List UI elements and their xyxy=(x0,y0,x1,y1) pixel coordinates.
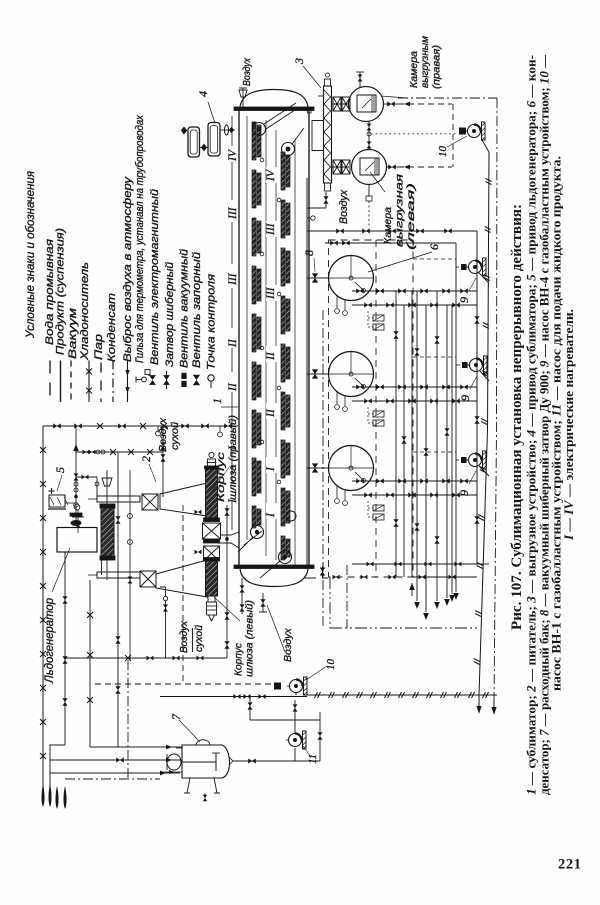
svg-text:Воздух: Воздух xyxy=(178,620,190,653)
upper sluice outlet xyxy=(218,532,240,548)
svg-text:III: III xyxy=(227,206,239,220)
svg-text:Вентиль вакуумный: Вентиль вакуумный xyxy=(179,249,191,368)
leader label 8 xyxy=(314,258,315,272)
vacuum boundary dashed box xyxy=(329,240,414,577)
trunk px118 xyxy=(117,452,119,747)
ice generator leader xyxy=(52,548,70,592)
svg-text:II: II xyxy=(227,338,239,348)
svg-text:7: 7 xyxy=(169,713,183,720)
left trunk px43 xyxy=(42,426,44,800)
svg-text:1: 1 xyxy=(210,398,224,404)
condenser 6-3 drain wells xyxy=(336,486,338,498)
tray guide line C xyxy=(275,130,277,560)
arrow end px417 xyxy=(414,602,420,609)
feed column px76 xyxy=(75,426,77,524)
suction valve pump 9-3 xyxy=(461,457,467,463)
svg-text:Корпус: Корпус xyxy=(215,451,227,502)
leader sluice left xyxy=(214,597,240,621)
svg-text:Конденсат: Конденсат xyxy=(106,293,118,362)
lattice valve ticks xyxy=(393,331,398,339)
trunk px65 lower xyxy=(64,552,66,745)
belt pulley top-right xyxy=(282,143,295,156)
legend sample: vacvalve xyxy=(181,373,186,379)
svg-text:Выброс воздуха в атмосферу: Выброс воздуха в атмосферу xyxy=(122,175,134,362)
leader pump 11 xyxy=(303,746,311,757)
section label II inner xyxy=(266,346,277,362)
collector row py577 xyxy=(408,576,477,578)
suction valve pump 9-2 xyxy=(462,362,468,368)
feeder inlet stem xyxy=(106,470,108,505)
drive 5 details xyxy=(74,504,80,510)
condenser 6-1 inlet valve 8-style xyxy=(312,273,318,282)
svg-text:сухой: сухой xyxy=(193,625,205,652)
manifold line px426 xyxy=(425,305,427,612)
dashed link to pump 9-1 xyxy=(413,258,456,260)
vacuum pump 10 (top) xyxy=(468,125,481,138)
sublimator shell left wall xyxy=(238,110,240,566)
header valves xyxy=(53,423,61,428)
sublimator top flange xyxy=(234,107,314,111)
svg-text:II: II xyxy=(265,408,277,418)
svg-text:Камера: Камера xyxy=(382,207,394,244)
leader sluice right xyxy=(211,466,230,492)
sluice flange disks xyxy=(204,518,220,522)
svg-text:Вакуум: Вакуум xyxy=(67,307,79,359)
condenser 6-2 shell xyxy=(329,352,374,397)
manifold line px396 xyxy=(395,291,397,577)
legend sample: point xyxy=(208,375,214,381)
atmosphere arrows down xyxy=(476,706,481,714)
discharge pump 9-2 xyxy=(480,371,489,381)
bottom supply teardrops xyxy=(55,786,58,809)
chamber 1 inner box xyxy=(357,95,376,112)
section label III inner xyxy=(266,285,277,301)
flange set to chamber 2 xyxy=(331,166,349,168)
svg-text:Пар: Пар xyxy=(93,334,105,360)
svg-text:4: 4 xyxy=(196,91,210,97)
suction valve pump 9-1 xyxy=(461,264,467,270)
instrument drops px130 xyxy=(129,470,131,660)
manifold line px404 xyxy=(403,305,405,577)
svg-text:Рис. 107. Сублимационная устан: Рис. 107. Сублимационная установка непре… xyxy=(509,204,525,630)
lower sluice flange disk xyxy=(204,558,220,562)
sublimator bottom dome xyxy=(240,569,308,587)
ice generator body xyxy=(57,528,97,553)
svg-text:Воздух: Воздух xyxy=(282,628,294,662)
right belt trays (hatched) xyxy=(281,152,285,190)
chamber 2 vacuum dash line xyxy=(398,166,452,168)
condensate drop xyxy=(329,577,331,628)
upper chute funnel xyxy=(160,483,207,516)
discharge chamber left (circle) xyxy=(352,150,387,185)
arrow end px456 xyxy=(453,593,459,600)
drain px227 from upper sluice xyxy=(226,505,228,658)
svg-text:5: 5 xyxy=(53,467,67,473)
svg-text:6: 6 xyxy=(427,244,441,250)
trunk px65 jog and end xyxy=(50,745,65,800)
leader pump 9-2 xyxy=(470,376,477,389)
product pump 11 xyxy=(289,734,302,747)
arrow end px437 xyxy=(434,602,440,609)
leader for label 3 xyxy=(303,66,321,88)
condenser 6-3 inlet valve 8-style xyxy=(312,463,318,472)
condenser 6-3 manifold row a xyxy=(352,480,477,482)
svg-text:III: III xyxy=(265,286,277,300)
chamber 1 vacuum dash line xyxy=(398,103,452,105)
condenser 6-1 manifold row a xyxy=(352,290,477,292)
pump 11 riser xyxy=(319,712,321,761)
legend sample: dashdot xyxy=(112,361,114,403)
wash row py452 xyxy=(76,451,163,453)
svg-text:II: II xyxy=(265,351,277,361)
belt pulley top-left xyxy=(253,123,266,136)
leader pump 9-1 xyxy=(469,278,476,291)
svg-text:Льдогенератор: Льдогенератор xyxy=(44,597,56,684)
leader label 4 xyxy=(208,102,215,123)
chamber 2 outlet valve xyxy=(387,166,399,168)
svg-text:2: 2 xyxy=(139,456,153,462)
leader label 5 xyxy=(57,475,62,491)
condensate line dash-dot-dot xyxy=(330,627,477,629)
tank 7 body xyxy=(182,745,230,778)
leader label 2 xyxy=(149,464,156,482)
conveyor bottom cap xyxy=(325,183,331,191)
condenser 6-2 drain wells xyxy=(336,392,338,404)
belt return diagonals top xyxy=(264,103,304,144)
sublimator top dome xyxy=(240,90,308,108)
cross line py658 xyxy=(64,657,227,659)
upper sluice X-flange xyxy=(203,523,221,539)
leader label 6 xyxy=(368,252,432,272)
feeder bottom flange xyxy=(100,556,115,560)
vacuum pump 10 (bottom) xyxy=(290,680,303,693)
condenser 6-1 internals xyxy=(349,276,353,280)
tank 7 inlet stubs xyxy=(176,747,182,749)
inner dashed partition xyxy=(375,240,377,577)
tray rollers xyxy=(260,158,264,162)
brine dash-dot py779 xyxy=(65,778,160,780)
sublimator bottom flange xyxy=(234,565,314,569)
vacuum dash riser to pump 10 xyxy=(452,104,454,167)
legend sample: dash8 xyxy=(100,363,102,403)
svg-text:Воздух: Воздух xyxy=(338,190,350,224)
condenser 6-1 heaters xyxy=(373,315,384,321)
tank 7 top hatch xyxy=(196,740,210,745)
lower transfer bar xyxy=(97,572,140,578)
discharge pump 9-1 xyxy=(479,273,489,283)
feeder bottom stem xyxy=(106,560,108,580)
section label II inner xyxy=(266,403,277,419)
sublimator shell right wall xyxy=(308,110,310,566)
ice-water line py773 xyxy=(50,772,180,774)
svg-text:Продукт (суспензия): Продукт (суспензия) xyxy=(55,228,67,355)
drive unit 4 shaft and knob xyxy=(220,129,235,131)
svg-text:(правая): (правая) xyxy=(431,45,443,89)
condenser 6-2 heaters xyxy=(373,411,384,417)
manifold line px452 xyxy=(451,305,453,594)
screw conveyor screw xyxy=(324,90,331,181)
chamber 1 outlet valve xyxy=(384,103,399,105)
svg-text:221: 221 xyxy=(558,857,582,873)
svg-text:11: 11 xyxy=(307,754,319,764)
leader chamber left label xyxy=(370,172,385,192)
air stub on top dome xyxy=(242,88,244,107)
feeder top flange xyxy=(100,504,115,508)
inlet block pump 10 bottom xyxy=(274,683,281,690)
feed drop px163 xyxy=(162,426,164,497)
manifold line px447 xyxy=(446,305,448,598)
discharge chamber right (circle) xyxy=(349,87,384,122)
top manifold row xyxy=(307,230,477,232)
feeder barrel (hatched) xyxy=(101,508,114,556)
leader pump 10 bottom xyxy=(306,666,327,680)
collector valves xyxy=(474,316,479,324)
svg-text:IV: IV xyxy=(227,148,239,162)
tank 7 legs xyxy=(187,778,190,793)
svg-text:Гильза для термометра, устанав: Гильза для термометра, устанавл на трубо… xyxy=(134,115,146,363)
lower X-flange xyxy=(140,571,156,587)
svg-text:3: 3 xyxy=(292,58,306,65)
vacuum pump 9-2 xyxy=(470,359,483,372)
svg-text:9: 9 xyxy=(458,395,472,401)
drive unit 4 diamonds xyxy=(181,127,187,135)
svg-text:9: 9 xyxy=(457,490,471,496)
dashed link to pump 9-3 xyxy=(413,451,456,453)
upper sluice top cap xyxy=(209,452,214,457)
svg-text:III: III xyxy=(227,272,239,286)
condenser 6-2 inlet valve 8-style xyxy=(312,369,318,378)
collector row py564 xyxy=(352,563,477,565)
leader to bottom air stub xyxy=(267,605,285,652)
condenser 6-2 manifold row a xyxy=(352,386,477,388)
legend sample: xline xyxy=(88,361,90,403)
svg-text:III: III xyxy=(265,222,277,236)
leader for label 1 xyxy=(221,406,238,408)
vacuum pump 9-3 xyxy=(469,454,482,467)
lower chute funnel xyxy=(156,560,207,597)
legend sample: gate xyxy=(163,375,170,385)
svg-text:8: 8 xyxy=(302,250,316,256)
chamber 2 bottom stub xyxy=(368,185,370,197)
stub px242 at vessel dome xyxy=(241,578,243,614)
wash water header py426 xyxy=(43,425,238,427)
upper transfer bar xyxy=(97,496,140,502)
condenser 6-2 internals xyxy=(349,372,353,376)
ice generator drive 5 xyxy=(49,495,65,507)
tank drain stub xyxy=(204,793,206,801)
manifold line px437 xyxy=(436,291,438,601)
svg-text:10: 10 xyxy=(325,659,337,671)
svg-text:выгрузным: выгрузным xyxy=(419,36,431,88)
belt pulley bottom-left xyxy=(251,526,264,539)
arrow end px426 xyxy=(423,613,429,620)
legend sample: well xyxy=(142,377,147,382)
lower sluice bottom tip xyxy=(208,596,215,602)
condenser 6-1 manifold row b xyxy=(352,304,477,306)
condenser 6-3 heaters xyxy=(373,505,384,511)
svg-text:Точка контроля: Точка контроля xyxy=(206,274,218,370)
discharge drop tick marks xyxy=(485,179,491,185)
svg-text:IV: IV xyxy=(265,168,277,182)
svg-text:II: II xyxy=(227,382,239,392)
top manifold valves xyxy=(336,228,344,233)
drive unit 4 capsule left xyxy=(188,127,200,157)
pump 10 discharge drop xyxy=(482,140,489,152)
upper X-flange xyxy=(142,494,158,510)
right collector px477 xyxy=(476,231,478,564)
chamber 2 inner box xyxy=(360,158,379,175)
condenser 6-3 internals xyxy=(349,466,353,470)
legend sample: solid xyxy=(60,361,62,403)
svg-text:Воздух: Воздух xyxy=(157,417,169,452)
left trunk x marks xyxy=(40,447,46,453)
vacuum dashed suction (bottom) xyxy=(95,683,274,685)
atmosphere discharge header xyxy=(160,696,307,698)
condenser feed riser xyxy=(306,178,308,565)
tank 7 agitator motor xyxy=(167,754,181,770)
svg-text:выгрузная: выгрузная xyxy=(394,173,406,247)
tray guide line D xyxy=(294,140,296,566)
atmosphere header ticks xyxy=(315,692,321,698)
svg-text:9: 9 xyxy=(457,297,471,303)
legend sample: dash12 xyxy=(49,361,51,403)
condenser 6-3 manifold row b xyxy=(352,494,477,496)
conveyor top cap xyxy=(325,79,331,86)
condenser 6-3 shell xyxy=(329,446,374,491)
conveyor bracket to vessel xyxy=(318,95,324,97)
section label III inner xyxy=(266,221,277,237)
condenser 6-2 manifold row b xyxy=(352,400,477,402)
manifold line px412 xyxy=(411,291,413,577)
tray guide line B xyxy=(265,120,267,556)
feed branch below flange xyxy=(322,566,324,578)
svg-text:Хладоноситель: Хладоноситель xyxy=(79,262,91,361)
belt pulley bottom-mid xyxy=(286,511,296,521)
thermo wells on header xyxy=(156,431,161,436)
chamber 1 top stub xyxy=(359,72,361,87)
leader chamber right label xyxy=(381,96,407,98)
conveyor bottom line xyxy=(325,192,327,208)
vacuum pump 9-1 xyxy=(469,261,482,274)
manifold line px417 xyxy=(416,291,418,601)
svg-text:шлюза (левый): шлюза (левый) xyxy=(244,600,256,677)
tank 7 outlet line xyxy=(233,760,320,762)
leader label 7 xyxy=(179,720,200,742)
branch py477 xyxy=(76,476,97,478)
atmosphere dash-dot header xyxy=(398,97,497,99)
leader pump 10 label xyxy=(447,136,467,147)
pump 10 bottom discharge xyxy=(295,693,297,696)
legend sample: solenoid xyxy=(149,375,156,385)
flange set to chamber 1 xyxy=(331,103,349,105)
leader pump 9-3 xyxy=(469,471,476,484)
svg-text:Вентиль электромагнитный: Вентиль электромагнитный xyxy=(149,189,161,365)
discharge pump 9-3 xyxy=(479,466,489,476)
svg-text:Затвор шиберный: Затвор шиберный xyxy=(164,262,176,367)
upper sluice barrel xyxy=(206,469,218,518)
section label IV inner xyxy=(266,167,277,183)
lower sluice X-flange xyxy=(204,546,220,561)
inlet valve of pump 10 xyxy=(459,128,466,135)
legend sample: ticks xyxy=(127,361,129,403)
svg-text:Условные знаки и обозначения: Условные знаки и обозначения xyxy=(23,170,37,339)
right dash-dot drop line xyxy=(494,98,497,705)
funnel tip elbow xyxy=(160,587,166,596)
legend sample: stop xyxy=(193,375,200,385)
condenser 6-1 shell xyxy=(329,256,374,301)
condenser 6-1 drain wells xyxy=(336,296,338,308)
pump 11 stem xyxy=(294,700,296,733)
svg-text:шлюза (правый): шлюза (правый) xyxy=(227,415,239,500)
section dimension strip xyxy=(231,116,233,146)
lower sluice barrel xyxy=(206,561,218,596)
trunk px90 xyxy=(89,580,91,747)
feed line py760 to tank xyxy=(50,759,182,761)
drive unit 4 capsule right xyxy=(208,123,220,157)
svg-text:Воздух: Воздух xyxy=(241,57,253,86)
dashed link to pump 9-2 xyxy=(413,356,456,358)
air stub bottom dome xyxy=(262,593,264,612)
manifold line px456 xyxy=(455,243,457,564)
left belt trays (hatched) xyxy=(252,122,256,160)
arrow end px452 xyxy=(449,595,455,602)
tray guide line A xyxy=(246,116,248,540)
screw conveyor housing xyxy=(324,86,332,183)
legend sample: dash5 xyxy=(70,361,72,403)
thermo well on riser xyxy=(311,216,315,220)
section label I inner xyxy=(266,503,277,519)
arrow end px447 xyxy=(444,599,450,606)
up arrow px412 xyxy=(409,583,415,590)
left trunk end xyxy=(41,784,44,807)
belt return diagonals bottom xyxy=(238,531,280,578)
feed line py747 to tank xyxy=(90,746,182,748)
svg-text:Вентиль запорный: Вентиль запорный xyxy=(191,252,203,368)
svg-text:1 — сублиматор; 2 — питатель;: 1 — сублиматор; 2 — питатель; 3 — выгруз… xyxy=(525,55,539,795)
svg-text:сухой: сухой xyxy=(169,422,181,450)
belt pulley bottom-right xyxy=(279,551,292,564)
coolant trunk dash-dot xyxy=(322,310,324,628)
svg-text:I — IV — электрические нагрева: I — IV — электрические нагреватели. xyxy=(562,309,576,541)
section label I inner xyxy=(266,457,277,473)
chamber 2 top stub xyxy=(368,122,370,151)
